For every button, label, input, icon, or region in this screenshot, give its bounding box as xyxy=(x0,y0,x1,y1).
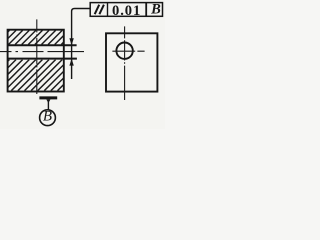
hole circle in right view xyxy=(116,43,132,59)
frame divider 2 xyxy=(145,3,147,17)
svg-text:0.01: 0.01 xyxy=(112,3,141,19)
right view square outline xyxy=(106,33,157,91)
datum target thick bar below part xyxy=(39,96,57,99)
leader line from feature control frame (elbow) xyxy=(72,9,91,80)
svg-text:B: B xyxy=(150,2,161,18)
datum triangle on bar xyxy=(46,99,50,103)
horizontal centerline (hole axis) xyxy=(0,51,84,53)
vertical centerline of section view xyxy=(36,19,38,94)
vertical centerline of hole, right view xyxy=(124,26,126,100)
frame divider 1 xyxy=(107,3,109,17)
hatching lower band of section view xyxy=(0,60,89,91)
parallelism symbol // xyxy=(95,5,104,15)
feature control frame box xyxy=(90,3,162,17)
datum leader stem xyxy=(47,99,49,110)
dimension arrowhead pointing down at hole top edge xyxy=(69,38,73,45)
dimension arrowhead pointing up at hole bottom edge xyxy=(69,59,73,66)
hole top edge line xyxy=(7,44,76,46)
part outline (section view, left) xyxy=(8,30,64,92)
horizontal centerline of hole, right view xyxy=(112,50,144,52)
hatching upper band of section view xyxy=(0,30,75,44)
svg-text:B: B xyxy=(43,108,52,124)
hole bottom edge line xyxy=(7,58,77,60)
datum circle xyxy=(40,110,56,126)
